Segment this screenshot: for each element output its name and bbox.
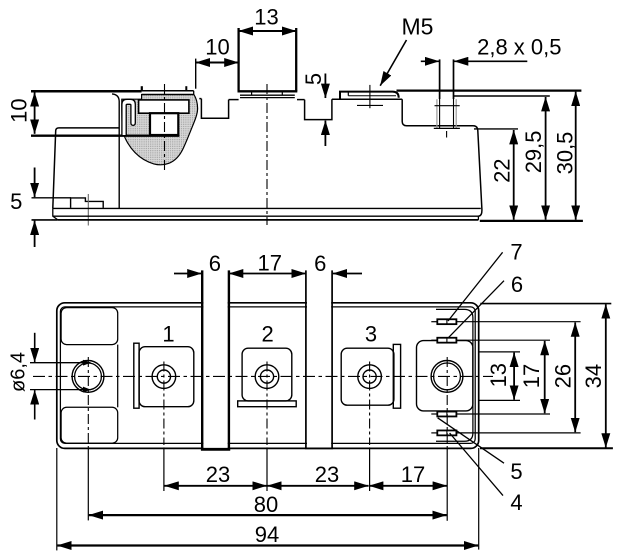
dimension 10 left: vertical line with arrows: [34, 92, 36, 134]
barrier 2 body (white): [307, 271, 331, 448]
svg-text:7: 7: [510, 240, 522, 265]
fast-on tab 5 (plan): [431, 412, 456, 417]
pad 2 top plate: [238, 90, 298, 92]
barrier 1 body (white): [203, 271, 227, 450]
terminal 1 centerline: [163, 362, 165, 446]
dimension 17 top: [229, 273, 306, 275]
body top edge right of recess 2: [332, 98, 402, 100]
barrier 1 bottom cap: [201, 448, 230, 451]
M5 screw centerline: [369, 85, 371, 108]
dimension 10 top: [196, 62, 239, 64]
extension line 29,5 top: [454, 95, 550, 97]
svg-text:94: 94: [255, 522, 279, 547]
svg-text:5: 5: [301, 73, 326, 85]
baseplate right end: [477, 216, 479, 220]
extension line 26 bottom (tab 4): [456, 432, 580, 434]
recess 2 (barrier slot): [305, 99, 332, 119]
extension line 26 top (tab 7): [456, 321, 580, 323]
dimension 23 first: [164, 485, 266, 487]
terminal 2 centerline: [266, 362, 268, 446]
svg-text:2: 2: [261, 322, 273, 347]
body step and right ledge: [402, 99, 482, 216]
dimension 30,5: [575, 92, 577, 220]
top-left slot: [61, 308, 118, 345]
dimension o6,4 tangent lines: [30, 362, 91, 364]
arrow 5 left pointing up: [34, 221, 36, 247]
main horizontal centerline: [33, 375, 493, 377]
svg-text:17: 17: [519, 364, 544, 388]
terminal 1 pad plate: [142, 90, 194, 92]
svg-text:17: 17: [258, 251, 282, 276]
module inner edge line: [60, 307, 475, 444]
right hole vertical centerline: [446, 357, 448, 448]
extension line 13 left / pad 2 left edge: [237, 28, 239, 91]
baseplate top line: [53, 215, 479, 217]
housing bottom edge: [53, 207, 481, 209]
extension line 17 bottom (tab 5): [456, 413, 550, 415]
leader 5: [438, 418, 504, 463]
body top edge between recess 1 and pad 2: [229, 99, 239, 101]
extension line left hole below: [87, 449, 89, 520]
terminal 3 side bar: [393, 344, 400, 408]
svg-text:6: 6: [314, 251, 326, 276]
dimension 13: [239, 30, 297, 32]
svg-text:34: 34: [581, 364, 606, 388]
extension line 30,5 top level / pad 1 top (thick): [31, 90, 142, 93]
body top edge left of recess 1: [199, 98, 201, 100]
dimension o6,4 arrows: [34, 333, 36, 362]
dimension 34: [605, 304, 607, 447]
right end bracket contour: [436, 309, 473, 441]
inner wall of side-terminal slot: [112, 94, 119, 208]
M5 leader arrow: [380, 40, 406, 86]
extension line right hole below: [446, 449, 448, 521]
extension line terminal 3 below: [369, 447, 371, 491]
svg-text:3: 3: [365, 322, 377, 347]
svg-text:30,5: 30,5: [552, 132, 577, 175]
extension line body left below: [56, 448, 58, 550]
svg-text:ø6,4: ø6,4: [8, 352, 30, 392]
svg-text:23: 23: [206, 462, 230, 487]
extension line 13 bottom right: [480, 399, 521, 401]
extension line terminal 2 below: [266, 447, 268, 491]
barrier 1 right edge (thick): [228, 270, 230, 450]
terminal 3 square: [341, 348, 394, 405]
extension line 30,5 top (thick): [397, 89, 582, 91]
svg-text:6: 6: [209, 251, 221, 276]
terminal 3 centerline: [369, 362, 371, 446]
svg-text:10: 10: [6, 98, 31, 122]
extension line terminal 1 below: [163, 447, 165, 491]
svg-text:23: 23: [315, 462, 339, 487]
extension line bottom (thick): [480, 220, 583, 222]
dimension 6 right tail: [333, 273, 362, 275]
svg-text:13: 13: [254, 5, 278, 30]
body top edge between pad 2 and recess 2: [297, 99, 305, 101]
left mounting hole: [72, 361, 104, 393]
terminal 1 side bar: [134, 343, 139, 408]
svg-text:80: 80: [254, 492, 278, 517]
terminal 1 centerline: [164, 84, 166, 170]
dimension 26: [574, 322, 576, 432]
extension line 34 top: [480, 303, 611, 305]
left mounting hole centerline (side view): [87, 194, 89, 226]
square nut cavity: [150, 113, 178, 135]
baseplate bottom line: [58, 219, 479, 221]
blade cross tick: [435, 105, 460, 107]
left pocket edge: [117, 345, 119, 408]
nut pocket upper cavity: [139, 100, 189, 113]
svg-text:22: 22: [490, 158, 515, 182]
extension line 17 top (tab 6): [456, 339, 550, 341]
baseplate left end: [53, 208, 58, 220]
svg-text:5: 5: [10, 189, 22, 214]
clamp hook in section: [122, 99, 135, 135]
extension line 22 top: [474, 128, 518, 130]
arrow 5 recess pointing up: [324, 121, 326, 146]
svg-text:29,5: 29,5: [521, 130, 546, 173]
svg-text:6: 6: [511, 272, 523, 297]
extension line 34 bottom: [480, 447, 613, 449]
extension line 5 left top: [32, 197, 72, 199]
extension line 13 right / pad 2 right edge: [295, 28, 297, 91]
dimension 2,8 x 0,5 left arrow: [421, 60, 439, 62]
dimension 13 right: [513, 353, 515, 400]
leader 7: [448, 252, 503, 321]
barrier 1 left edge (thick): [201, 270, 203, 450]
pad 1 clamp lip left: [141, 86, 143, 91]
dimension 94: [57, 544, 478, 546]
arrow 5 recess pointing down: [324, 74, 326, 99]
terminal 3 flat pad: [340, 92, 399, 100]
leader 6: [448, 281, 504, 338]
module outer outline: [57, 303, 479, 449]
bottom-left slot: [61, 407, 118, 443]
dimension 22: [513, 130, 515, 220]
terminal 3 screw: [358, 365, 382, 389]
extension line 5 left bottom: [32, 219, 58, 221]
barrier 2 bottom cap: [305, 447, 333, 449]
right mounting hole: [431, 361, 463, 393]
extension line 10 bottom (nut seat, thick): [31, 134, 179, 136]
terminal 2 square: [242, 348, 292, 401]
barrier 2 right edge: [331, 270, 333, 448]
svg-text:2,8 x 0,5: 2,8 x 0,5: [477, 34, 561, 59]
dimension 17 right: [544, 341, 546, 413]
svg-text:26: 26: [551, 364, 576, 388]
terminal 2 screw: [255, 365, 279, 389]
recess 1 (barrier slot): [201, 99, 228, 119]
terminal 2 centerline: [266, 84, 268, 225]
svg-text:17: 17: [401, 462, 425, 487]
extension line body right below: [478, 448, 480, 550]
right hole pocket: [417, 341, 473, 411]
dimension 80: [89, 514, 447, 516]
terminal 1 square: [139, 347, 194, 407]
dimension 23 second: [267, 485, 368, 487]
svg-text:1: 1: [162, 322, 174, 347]
housing left end outline: [53, 128, 119, 208]
bottom tab at left end: [71, 198, 104, 208]
dimension 2,8 x 0,5 right arrow: [454, 60, 527, 62]
arrow 5 left pointing down: [34, 168, 36, 198]
terminal 1 screw: [152, 365, 176, 389]
dimension 17 bottom: [369, 485, 447, 487]
left hole vertical centerline: [87, 357, 89, 448]
terminal 2 bottom bar: [238, 401, 297, 407]
pad 1 clamp lip right: [185, 86, 187, 91]
hatched section blob of terminal 1: [122, 95, 198, 165]
fast-on tab 6 (plan): [431, 338, 456, 343]
dimension 6 left tail: [174, 273, 202, 275]
svg-text:4: 4: [510, 490, 522, 515]
fast-on tab 7 (plan): [431, 319, 456, 324]
fast-on tab blade (side view): [439, 59, 441, 99]
extension line 13 top right: [480, 351, 521, 353]
svg-text:13: 13: [486, 363, 511, 387]
svg-text:5: 5: [510, 459, 522, 484]
barrier 2 left edge: [305, 270, 307, 448]
svg-text:M5: M5: [402, 14, 434, 40]
blade pocket bottom: [434, 127, 460, 129]
fast-on tab 4 (plan): [431, 430, 456, 435]
leader 4: [450, 433, 503, 496]
extension line 10 top dim: [195, 59, 197, 89]
blade centerline tick: [446, 131, 448, 138]
svg-text:10: 10: [205, 35, 229, 60]
dimension 29,5: [545, 97, 547, 220]
blade shank inside housing: [439, 99, 441, 128]
